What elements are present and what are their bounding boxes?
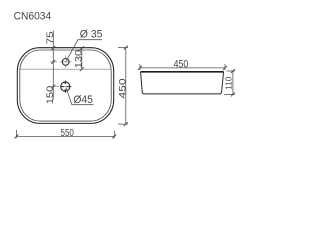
tick side 110 top — [231, 69, 235, 73]
faucet hole centerline vertical — [65, 56, 67, 69]
side view top edge thick — [141, 71, 224, 73]
drain centerline vertical — [64, 80, 66, 93]
tick 550 right — [112, 134, 116, 138]
svg-text:450: 450 — [118, 78, 128, 98]
shelf line (gray) — [20, 68, 110, 70]
drain centerline horizontal — [53, 86, 72, 88]
tick at basin top edge — [51, 46, 55, 50]
tick side 450 right — [223, 66, 227, 70]
tick at faucet hole level — [51, 60, 55, 64]
faucet hole centerline horizontal — [50, 61, 72, 63]
right dimension 450 extension line top — [118, 47, 128, 49]
faucet hole circle — [62, 59, 69, 66]
vertical dimension line B (130) — [81, 48, 83, 69]
svg-text:CN6034: CN6034 — [14, 10, 52, 23]
tick 450 top — [124, 46, 128, 50]
tick at shelf line B — [80, 67, 84, 71]
tick side 110 bottom — [231, 92, 235, 96]
basin inner rim outline (top view) — [20, 50, 111, 121]
bottom dimension 550 extension line left — [15, 130, 17, 138]
side 110 extension line bottom — [224, 93, 235, 95]
bottom dimension 550 extension line right — [113, 131, 115, 139]
drain circle — [61, 82, 70, 91]
svg-text:450: 450 — [174, 59, 189, 71]
vertical dimension line A (75/150) — [52, 31, 54, 100]
side view outline — [141, 72, 224, 94]
side 110 extension line top — [227, 70, 236, 72]
tick side 450 left — [138, 66, 142, 70]
svg-text:75: 75 — [46, 31, 55, 44]
svg-text:150: 150 — [46, 85, 56, 104]
side 110 dimension line — [232, 71, 234, 94]
side 450 extension line right — [224, 64, 226, 70]
tick at drain level — [51, 85, 55, 89]
tick 450 bottom — [124, 122, 128, 126]
basin outer outline (top view) — [17, 48, 113, 124]
svg-text:130: 130 — [74, 49, 84, 68]
bottom dimension 550 line — [16, 135, 114, 137]
svg-text:Ø 35: Ø 35 — [80, 29, 103, 41]
side 450 dimension line — [140, 67, 225, 69]
drain circle quadrant ticks — [61, 81, 70, 92]
svg-text:110: 110 — [224, 76, 234, 89]
leader line to drain callout — [66, 88, 94, 105]
tick 550 left — [14, 134, 18, 138]
right dimension 450 extension line bottom — [118, 123, 128, 125]
right dimension 450 line — [125, 48, 127, 125]
leader line to faucet hole callout — [66, 40, 102, 62]
svg-text:Ø45: Ø45 — [73, 94, 93, 106]
svg-text:550: 550 — [61, 127, 74, 138]
tick at basin top edge B — [80, 46, 84, 50]
side 450 extension line left — [139, 64, 141, 70]
